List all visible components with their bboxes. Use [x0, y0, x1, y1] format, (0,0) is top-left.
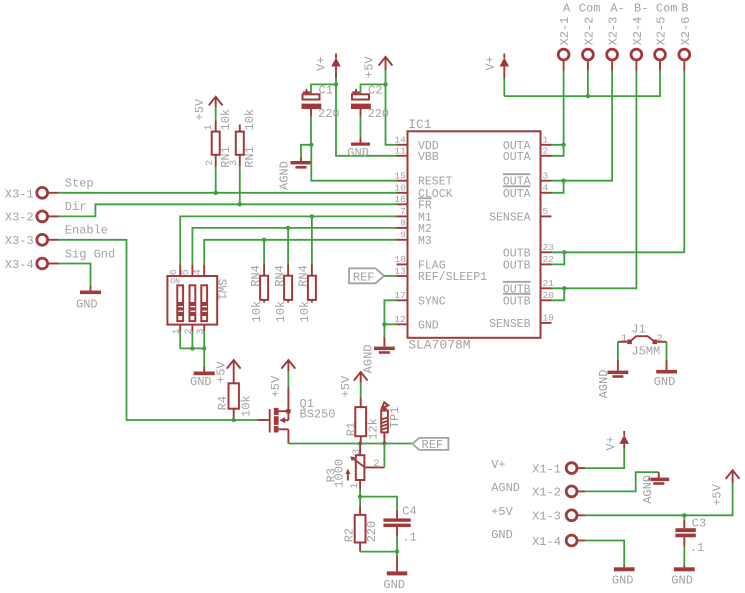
svg-text:+5V: +5V: [193, 98, 207, 120]
svg-text:Sig Gnd: Sig Gnd: [65, 247, 115, 261]
svg-text:GND: GND: [76, 298, 98, 312]
pin 3 OUTA-inv: [503, 171, 552, 189]
svg-text:R1: R1: [344, 422, 358, 436]
ground AGND (X1-2): [641, 472, 669, 504]
svg-text:16: 16: [394, 194, 406, 205]
resistor R4 10k: [216, 383, 253, 420]
pin 2 OUTA: [503, 146, 552, 164]
wire R3 wiper to REF node: [383, 444, 385, 468]
wire Enable net to Q1 gate: [59, 240, 258, 420]
svg-text:2: 2: [205, 160, 216, 166]
node OUTA-inv junction: [561, 179, 565, 183]
wire REF flag to pin 13: [384, 275, 397, 277]
wire junction to AGND: [301, 145, 311, 158]
supply +5V (above R1): [339, 372, 368, 397]
node REF/TP1 junction: [382, 441, 386, 445]
connector X2-4: [631, 2, 648, 71]
resistor RN1 3 10k (on Dir): [229, 109, 257, 168]
wire RN4-C top: [311, 216, 313, 263]
wire RN1 bottom to Step: [215, 167, 217, 193]
svg-text:X3-4: X3-4: [5, 258, 34, 272]
resistor RN4 10k (on M1): [297, 264, 316, 323]
ground GND (under C2): [347, 138, 370, 160]
svg-text:OUTB: OUTB: [503, 247, 531, 260]
node OUTB-inv junction: [562, 286, 566, 290]
ground AGND (under IC1): [362, 337, 395, 374]
switch SW1 (DIP-3): [167, 265, 228, 335]
pin 12 GND: [394, 314, 438, 332]
svg-text:19: 19: [543, 313, 555, 324]
connector X2-2: [579, 2, 601, 71]
svg-text:+5V: +5V: [214, 361, 228, 383]
connector X3-1: [5, 187, 59, 201]
node SYNC/GND junction: [382, 322, 386, 326]
supply V+ (near X2): [484, 54, 510, 79]
ground GND (under C3): [671, 565, 694, 588]
node Dir/RN1 junction: [238, 202, 242, 206]
svg-text:GND: GND: [671, 574, 693, 588]
connector X1-4: [491, 528, 585, 549]
svg-text:AGND: AGND: [362, 344, 376, 373]
svg-text:IC1: IC1: [408, 117, 432, 132]
svg-text:J5MM: J5MM: [631, 345, 660, 359]
svg-text:220: 220: [368, 107, 390, 121]
node +5V/C2 junction: [383, 82, 387, 86]
svg-text:A: A: [563, 2, 571, 16]
connector X2-3: [607, 2, 625, 71]
svg-text:AGND: AGND: [641, 475, 655, 504]
svg-text:5: 5: [543, 206, 549, 217]
wire down to AGND: [383, 324, 385, 336]
svg-text:SENSEA: SENSEA: [489, 211, 531, 224]
pin 10 CLOCK: [394, 183, 452, 201]
pin 15 RESET: [394, 171, 452, 189]
svg-text:1000: 1000: [333, 459, 347, 488]
svg-text:2: 2: [543, 146, 549, 157]
svg-text:TP1: TP1: [388, 407, 402, 429]
svg-text:X2-1: X2-1: [558, 17, 572, 46]
svg-text:10k: 10k: [240, 395, 254, 417]
svg-text:X1-2: X1-2: [532, 486, 561, 500]
svg-text:X1-1: X1-1: [532, 462, 561, 476]
node M1/RN4 junction: [310, 214, 314, 218]
resistor R2 220: [343, 506, 379, 551]
svg-text:10k: 10k: [219, 109, 233, 131]
svg-text:C4: C4: [402, 505, 416, 519]
node C1-/AGND/RESET junction: [309, 143, 313, 147]
svg-text:REF: REF: [353, 270, 375, 284]
svg-text:10: 10: [394, 183, 406, 194]
wire C3 top: [683, 515, 685, 519]
svg-text:GND: GND: [491, 528, 513, 542]
node SW1 gnd junctions: [190, 346, 194, 350]
node V+/C1 junction: [334, 82, 338, 86]
pin 13 REF/SLEEP1: [394, 266, 487, 284]
svg-text:9: 9: [400, 230, 406, 241]
pin 11 VBB: [394, 146, 438, 164]
ground GND (below X3-4): [76, 286, 101, 312]
capacitor C2 220 (polarized): [351, 84, 389, 122]
svg-text:5: 5: [181, 269, 192, 275]
svg-text:3: 3: [352, 449, 363, 455]
svg-text:RN4: RN4: [297, 265, 311, 287]
svg-text:2: 2: [184, 328, 195, 334]
svg-text:C1: C1: [319, 84, 333, 98]
pin 17 SYNC: [394, 290, 445, 308]
capacitor C1 220 (polarized): [302, 84, 340, 122]
svg-text:11: 11: [394, 146, 406, 157]
resistor RN4 10k (on M2): [273, 264, 292, 323]
resistor RN1 1-2 10k (pullup on Step): [204, 97, 233, 168]
trimmer R3 1000: [324, 444, 384, 490]
wire R3 bottom node: [360, 490, 397, 511]
wire M1 net: [180, 216, 396, 264]
svg-text:GND: GND: [190, 375, 212, 389]
wire X1-2 to AGND: [585, 472, 659, 491]
svg-text:AGND: AGND: [278, 161, 292, 190]
node V+/X2-2 junction: [586, 94, 590, 98]
svg-text:+5V: +5V: [269, 375, 283, 397]
svg-text:SLA7078M: SLA7078M: [408, 338, 470, 353]
svg-text:1: 1: [621, 334, 627, 345]
svg-text:BS250: BS250: [300, 407, 336, 421]
wire X1-4 to GND: [585, 541, 624, 566]
connector X1-3: [491, 505, 585, 524]
wire X2-3 to OUTA-inv pins 3,4: [552, 71, 613, 181]
wire C1- down: [310, 117, 312, 145]
op-amp IC1 SLA7078M body: [408, 117, 541, 353]
svg-text:3: 3: [229, 160, 240, 166]
node +5V/C3 junction: [682, 513, 686, 517]
pin 20 OUTB-inv: [503, 290, 554, 308]
wire Sig Gnd net: [59, 264, 91, 287]
pin 9 M3: [397, 230, 432, 248]
supply V+ (top, near C1): [314, 54, 341, 79]
ground AGND (J1): [597, 361, 628, 399]
pin 21 OUTB-inv: [503, 278, 554, 296]
svg-text:OUTA: OUTA: [503, 188, 531, 201]
svg-text:B-: B-: [634, 2, 648, 16]
svg-text:RN4: RN4: [249, 265, 263, 287]
wire RN4-A top: [263, 240, 265, 264]
wire SW1 bottoms to GND: [180, 332, 204, 349]
wire X2-4 to OUTB-inv pins 21,20: [552, 71, 637, 288]
svg-text:X2-5: X2-5: [655, 17, 669, 46]
svg-text:AGND: AGND: [597, 370, 611, 399]
svg-text:X3-3: X3-3: [5, 234, 34, 248]
net flag REF (at pin 13): [349, 268, 384, 284]
wire X2-1 to OUTA pins 1,2: [552, 71, 564, 145]
svg-text:3: 3: [543, 171, 549, 182]
svg-text:.1: .1: [690, 541, 704, 555]
pin 8 M2: [397, 218, 432, 236]
svg-text:6: 6: [169, 269, 180, 275]
svg-text:OUTB: OUTB: [503, 295, 531, 308]
svg-text:V+: V+: [491, 458, 505, 472]
wire X1-1 to V+: [585, 449, 624, 469]
wire X1-3 +5V net: [585, 483, 732, 515]
svg-text:X3-2: X3-2: [5, 211, 34, 225]
wire J1 pin1 to AGND: [617, 342, 619, 361]
pin 19 SENSEB: [489, 313, 554, 331]
wire +5V to RN1 top: [215, 107, 217, 121]
svg-text:OUTA: OUTA: [503, 151, 531, 164]
svg-text:Com: Com: [656, 2, 678, 16]
pin 7 M1: [397, 206, 432, 224]
svg-text:4: 4: [543, 183, 549, 194]
connector X1-1: [491, 458, 585, 477]
wire V+ net vertical to VBB: [336, 78, 397, 156]
node OUTA junction: [561, 143, 565, 147]
jumper J1 J5MM: [618, 323, 667, 359]
wire C2- down to GND: [360, 117, 362, 138]
capacitor C4 .1: [383, 505, 416, 545]
svg-text:1: 1: [204, 124, 215, 130]
svg-text:X2-3: X2-3: [607, 17, 621, 46]
svg-text:VBB: VBB: [418, 151, 439, 164]
wire REF node horizontal: [288, 443, 412, 445]
supply V+ (above X1-1): [604, 431, 629, 451]
connector X3-3: [5, 234, 59, 248]
svg-text:REF: REF: [422, 438, 444, 452]
resistor RN4 10k (on M3): [249, 264, 268, 323]
svg-text:.1: .1: [402, 530, 416, 544]
svg-text:C2: C2: [368, 84, 382, 98]
wire R2/C4 bottoms: [360, 551, 397, 553]
wire C1 to V+: [311, 84, 336, 94]
svg-text:4: 4: [193, 269, 204, 275]
svg-text:X2-2: X2-2: [583, 17, 597, 46]
wire M2 net: [192, 228, 396, 265]
node R3/R2/C4 junction: [358, 494, 362, 498]
svg-text:10k: 10k: [243, 109, 257, 131]
transistor Q1 BS250: [258, 387, 336, 444]
wire Dir/FR net: [59, 204, 397, 216]
svg-text:Enable: Enable: [65, 224, 108, 238]
svg-text:X2-6: X2-6: [679, 17, 693, 46]
svg-text:+5V: +5V: [339, 375, 353, 397]
connector X3-4: [5, 258, 59, 272]
capacitor C3 .1: [675, 517, 706, 556]
svg-text:GND: GND: [347, 146, 369, 160]
connector X3-2: [5, 211, 59, 225]
svg-text:SW1: SW1: [215, 279, 229, 301]
wire RESET net: [311, 145, 396, 181]
svg-text:X1-4: X1-4: [532, 535, 561, 549]
supply +5V (above RN1): [193, 97, 223, 121]
node R2/C4 gnd junction: [395, 549, 399, 553]
supply +5V (above Q1): [269, 360, 295, 397]
node M2/RN4 junction: [286, 226, 290, 230]
wire V+ rail to Com pins: [503, 78, 505, 96]
net flag REF (at divider): [412, 438, 448, 452]
svg-text:V+: V+: [484, 56, 498, 70]
supply +5V (above R4): [214, 360, 240, 383]
svg-text:AGND: AGND: [491, 481, 520, 495]
pin 14 VDD: [394, 135, 438, 153]
wire M3 net: [204, 240, 396, 265]
node M3/RN4 junction: [262, 238, 266, 242]
wire X2-6 to OUTB pins 23,22: [552, 71, 685, 253]
svg-text:1: 1: [172, 328, 183, 334]
wire SYNC to GND pin 12: [384, 300, 396, 324]
svg-text:RN1: RN1: [243, 146, 257, 168]
svg-text:10k: 10k: [274, 301, 288, 323]
resistor R1 12k: [344, 397, 380, 443]
wire +5V to R1: [360, 383, 362, 397]
wire RN4-B top: [287, 228, 289, 264]
svg-text:V+: V+: [314, 57, 328, 71]
svg-text:10k: 10k: [298, 301, 312, 323]
svg-text:12k: 12k: [367, 418, 381, 440]
ground GND (under R2/C4): [383, 556, 407, 592]
ground GND (under SW1): [190, 367, 215, 390]
svg-text:C3: C3: [692, 517, 706, 531]
svg-text:15: 15: [394, 171, 406, 182]
svg-text:8: 8: [400, 218, 406, 229]
svg-text:FR: FR: [418, 199, 432, 212]
pin 22 OUTB: [503, 254, 554, 272]
svg-text:M3: M3: [418, 235, 432, 248]
pin 16 FR (inverted): [394, 194, 432, 212]
svg-text:18: 18: [394, 254, 406, 265]
wire J1 pin2 to GND: [666, 342, 668, 361]
supply +5V (top, near C2): [362, 56, 392, 78]
wire C2 to +5V: [361, 84, 386, 94]
svg-text:Dir: Dir: [65, 200, 87, 214]
svg-text:GND: GND: [418, 319, 439, 332]
svg-text:GND: GND: [654, 375, 676, 389]
svg-text:+5V: +5V: [491, 505, 513, 519]
svg-text:1: 1: [350, 483, 361, 489]
svg-text:SYNC: SYNC: [418, 295, 446, 308]
svg-text:+5V: +5V: [362, 56, 376, 78]
node R4/Enable junction: [232, 418, 236, 422]
svg-text:220: 220: [365, 521, 379, 543]
node REF/R1 junction: [358, 441, 362, 445]
svg-text:REF/SLEEP1: REF/SLEEP1: [418, 271, 487, 284]
svg-text:+5V: +5V: [711, 483, 725, 505]
wire C3 bottom: [683, 547, 685, 565]
svg-text:220: 220: [318, 107, 340, 121]
ground GND (J1): [654, 361, 677, 389]
pin 5 SENSEA: [489, 206, 551, 224]
connector X2-5: [655, 2, 678, 71]
wire +5V net vertical to VDD: [386, 70, 397, 145]
ground AGND (near C1): [278, 158, 312, 191]
svg-text:J1: J1: [631, 323, 645, 337]
wire Step/CLOCK net: [59, 192, 397, 194]
svg-text:2: 2: [374, 459, 380, 470]
svg-text:GND: GND: [612, 574, 634, 588]
svg-text:GND: GND: [383, 578, 405, 592]
node OUTB junction: [562, 250, 566, 254]
svg-text:Step: Step: [65, 177, 94, 191]
wire +5V to Q1 source: [287, 371, 289, 387]
svg-text:X2-4: X2-4: [631, 17, 645, 46]
svg-text:OUTB: OUTB: [503, 259, 531, 272]
wire RN1-3 bottom to Dir: [239, 167, 241, 205]
svg-text:R4: R4: [216, 396, 230, 410]
pin 18 FLAG: [394, 254, 445, 272]
ground GND (X1-4): [612, 565, 635, 588]
svg-text:X3-1: X3-1: [5, 187, 34, 201]
pin 23 OUTB: [503, 242, 554, 260]
svg-text:7: 7: [400, 206, 406, 217]
svg-text:R2: R2: [343, 528, 357, 542]
svg-text:2: 2: [657, 334, 663, 345]
svg-text:14: 14: [394, 135, 406, 146]
connector X2-6: [679, 2, 693, 71]
svg-text:V+: V+: [604, 436, 618, 450]
pin 4 OUTA-inv: [503, 183, 552, 201]
svg-text:X1-3: X1-3: [532, 510, 561, 524]
svg-text:3: 3: [196, 328, 207, 334]
svg-text:RN4: RN4: [273, 265, 287, 287]
supply +5V (right): [711, 470, 740, 506]
connector X2-1: [558, 2, 572, 71]
svg-text:A-: A-: [610, 2, 624, 16]
svg-text:B: B: [681, 2, 688, 16]
svg-text:10k: 10k: [250, 301, 264, 323]
connector X1-2: [491, 481, 585, 500]
pin 1 OUTA: [503, 135, 552, 153]
node Step/RN1 junction: [214, 191, 218, 195]
svg-text:1: 1: [543, 135, 549, 146]
testpoint TP1: [381, 402, 402, 443]
svg-text:RESET: RESET: [418, 176, 453, 189]
svg-text:Com: Com: [579, 2, 601, 16]
svg-text:SENSEB: SENSEB: [489, 318, 531, 331]
